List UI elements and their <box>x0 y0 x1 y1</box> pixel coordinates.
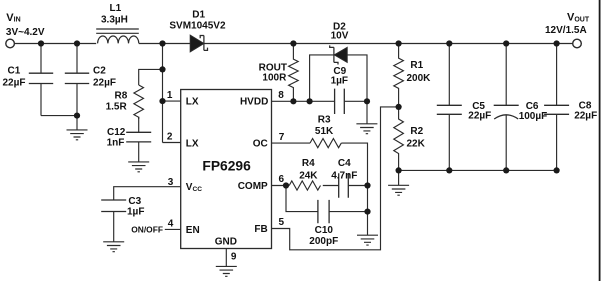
svg-text:3.3µH: 3.3µH <box>101 14 128 25</box>
diode D1 SVM1045V2 <box>190 35 207 52</box>
svg-text:6: 6 <box>279 174 285 185</box>
svg-text:C10: C10 <box>315 225 334 236</box>
svg-text:R2: R2 <box>410 126 423 137</box>
wire pin 1 stub <box>163 100 181 102</box>
svg-text:C3: C3 <box>128 196 141 207</box>
capacitor C1 <box>29 44 53 116</box>
svg-text:200pF: 200pF <box>309 236 338 247</box>
svg-text:L1: L1 <box>110 3 122 14</box>
wire LX node vertical <box>162 44 164 143</box>
node C6 top <box>503 40 509 46</box>
terminal VIN circle <box>6 39 15 48</box>
wire C4 to vertical <box>348 185 367 187</box>
terminal VOUT circle <box>573 39 582 48</box>
svg-text:R8: R8 <box>115 90 128 101</box>
node LX top <box>159 40 165 46</box>
svg-text:8: 8 <box>278 90 284 101</box>
svg-text:100µF: 100µF <box>519 111 548 122</box>
svg-text:R1: R1 <box>410 60 423 71</box>
svg-text:FP6296: FP6296 <box>202 159 251 174</box>
node C4 right <box>364 182 370 188</box>
svg-text:1µF: 1µF <box>127 207 144 218</box>
IC U1 FP6296 box <box>181 90 272 249</box>
capacitor C10 <box>318 200 329 223</box>
wire C1 bottom to C2 bottom <box>41 115 77 117</box>
svg-text:4: 4 <box>168 218 174 229</box>
ground (C3) <box>103 242 124 252</box>
wire top rail VIN to L1 <box>14 43 96 45</box>
svg-text:EN: EN <box>186 225 200 236</box>
svg-text:24K: 24K <box>299 170 318 181</box>
svg-text:51K: 51K <box>315 126 334 137</box>
wire pin 9 GND stub <box>225 249 227 267</box>
wire L1 to D1 anode <box>139 43 190 45</box>
node pin1 <box>159 98 165 104</box>
wire C12 to ground <box>138 142 140 162</box>
capacitor C12 <box>126 132 151 142</box>
ground (C1/C2) <box>67 130 88 140</box>
wire C3 to ground <box>113 212 115 242</box>
ground (IC pin 9) <box>216 266 237 276</box>
svg-text:HVDD: HVDD <box>240 97 268 108</box>
wire C10 to vertical <box>329 211 367 213</box>
capacitor C5 <box>437 44 462 171</box>
svg-text:R3: R3 <box>318 115 331 126</box>
svg-text:200K: 200K <box>407 73 432 84</box>
ground (R2) <box>388 185 409 195</box>
node FB divider <box>396 104 402 110</box>
capacitor C9 <box>335 89 345 114</box>
wire R4 to C4 <box>323 185 339 187</box>
resistor R8 <box>134 85 144 119</box>
node ROUT bottom <box>290 98 296 104</box>
node COMP branch <box>283 182 289 188</box>
svg-text:5: 5 <box>279 217 285 228</box>
svg-text:22K: 22K <box>407 138 426 149</box>
resistor R1 <box>394 44 404 107</box>
svg-text:1nF: 1nF <box>107 137 125 148</box>
wire COMP pin 6 stub <box>272 185 290 187</box>
svg-text:D1: D1 <box>192 10 205 21</box>
node C8 bottom <box>554 167 560 173</box>
ground (C9/D2) <box>356 124 377 134</box>
svg-text:COMP: COMP <box>238 181 268 192</box>
inductor L1 <box>96 29 139 43</box>
node R1 top <box>396 40 402 46</box>
node ROUT top <box>290 40 296 46</box>
svg-text:12V/1.5A: 12V/1.5A <box>545 25 587 36</box>
node D2 left <box>307 98 313 104</box>
wire bottom rail <box>399 169 557 171</box>
wire EN pin 4 stub <box>165 228 181 230</box>
resistor R4 <box>289 181 320 190</box>
resistor R2 <box>394 107 404 170</box>
svg-text:ON/OFF: ON/OFF <box>131 225 163 235</box>
svg-text:SVM1045V2: SVM1045V2 <box>169 20 226 31</box>
ground (comp network) <box>357 235 378 245</box>
svg-text:2: 2 <box>167 131 173 142</box>
svg-text:1: 1 <box>167 90 173 101</box>
node C8 top <box>554 40 560 46</box>
svg-text:C12: C12 <box>107 127 126 138</box>
capacitor C6 polarized <box>494 44 519 171</box>
node R2 bottom <box>396 167 402 173</box>
node C1 top <box>38 40 44 46</box>
wire VCC pin 3 to C3 <box>114 187 181 200</box>
svg-text:10V: 10V <box>331 31 349 42</box>
svg-text:VIN: VIN <box>6 12 20 24</box>
node C2 top <box>74 40 80 46</box>
resistor R3 <box>310 139 341 148</box>
svg-text:7: 7 <box>279 132 285 143</box>
capacitor C8 <box>544 44 569 171</box>
wire HVDD pin 8 line <box>272 100 335 102</box>
resistor ROUT <box>289 44 299 102</box>
svg-text:GND: GND <box>215 236 237 247</box>
node C6 bottom <box>503 167 509 173</box>
svg-text:22µF: 22µF <box>574 111 597 122</box>
svg-text:3V~4.2V: 3V~4.2V <box>6 27 45 38</box>
svg-text:FB: FB <box>254 224 267 235</box>
svg-text:1.5R: 1.5R <box>106 101 128 112</box>
wire R3 to vertical <box>341 143 367 235</box>
wire FB pin 5 routing to divider <box>272 107 399 250</box>
wire C9 right to ground node <box>344 100 367 102</box>
capacitor C4 <box>339 173 349 197</box>
svg-text:OC: OC <box>253 139 268 150</box>
node R8 branch <box>159 66 165 72</box>
wire R2 bottom to ground <box>398 170 400 185</box>
svg-text:VCC: VCC <box>186 182 202 193</box>
svg-text:C4: C4 <box>338 158 351 169</box>
svg-text:3: 3 <box>168 177 174 188</box>
svg-text:1µF: 1µF <box>331 75 348 86</box>
wire R8 branch <box>139 69 163 85</box>
svg-text:C1: C1 <box>8 66 21 77</box>
capacitor C2 <box>65 44 89 130</box>
node C5 top <box>446 40 452 46</box>
svg-text:22µF: 22µF <box>468 111 491 122</box>
node C5 bottom <box>446 167 452 173</box>
wire R8 to C12 <box>138 117 140 133</box>
svg-text:22µF: 22µF <box>93 78 116 89</box>
node C10 right <box>364 209 370 215</box>
svg-text:4.7nF: 4.7nF <box>331 170 357 181</box>
wire OC pin 7 stub <box>272 142 311 144</box>
ground (C12) <box>128 162 149 172</box>
wire D1 cathode to VOUT terminal <box>204 43 573 45</box>
node C9 right <box>364 98 370 104</box>
svg-text:22µF: 22µF <box>3 78 26 89</box>
svg-text:9: 9 <box>231 252 237 263</box>
svg-text:C2: C2 <box>93 66 106 77</box>
svg-text:100R: 100R <box>262 72 287 83</box>
svg-text:VOUT: VOUT <box>567 12 590 24</box>
node C1/C2 bottom <box>74 113 80 119</box>
svg-text:LX: LX <box>186 139 199 150</box>
svg-text:LX: LX <box>186 97 199 108</box>
diode D2 zener 10V <box>310 45 367 101</box>
wire pin 2 stub <box>163 142 181 144</box>
svg-text:R4: R4 <box>302 158 315 169</box>
border right edge <box>599 0 601 281</box>
wire COMP branch down to C10 <box>286 186 318 212</box>
capacitor C3 <box>101 200 126 212</box>
wire HVDD node to ground <box>366 101 368 124</box>
